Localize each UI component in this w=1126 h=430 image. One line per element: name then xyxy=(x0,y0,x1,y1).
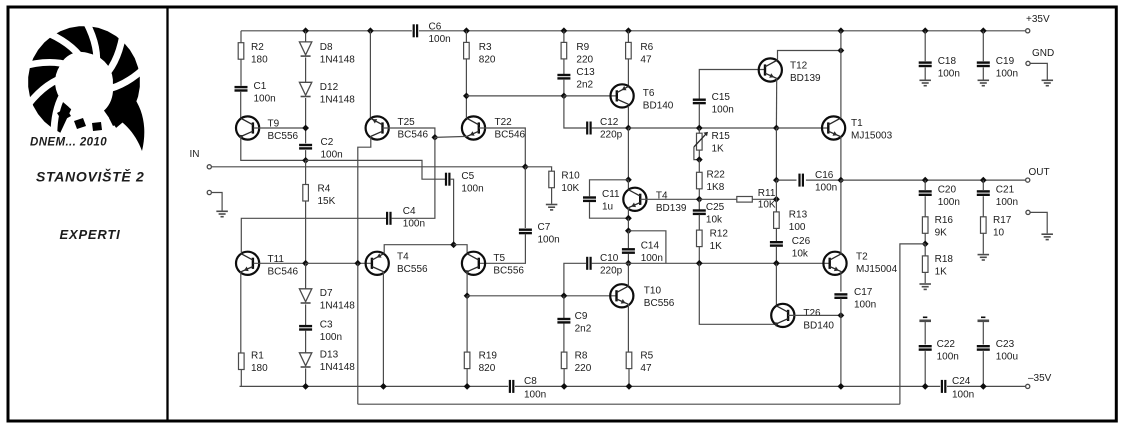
wire T26 base xyxy=(788,314,841,316)
wire R11 right xyxy=(752,198,776,200)
node T11 base junction xyxy=(302,260,309,267)
svg-text:BC556: BC556 xyxy=(397,264,428,275)
svg-text:100n: 100n xyxy=(996,197,1018,208)
panel divider xyxy=(166,6,168,422)
node OUT junction xyxy=(838,177,845,184)
wire T4c into transistor xyxy=(627,180,629,189)
svg-text:BD140: BD140 xyxy=(643,101,674,112)
svg-text:T5: T5 xyxy=(493,253,505,264)
node rail-R19 xyxy=(464,383,471,390)
diode D7 xyxy=(299,289,311,302)
svg-text:C7: C7 xyxy=(538,222,551,233)
wire R15 top leg xyxy=(698,128,700,133)
wire R1 bottom xyxy=(240,370,242,387)
svg-text:STANOVIŠTĚ 2: STANOVIŠTĚ 2 xyxy=(36,168,145,185)
svg-text:R10: R10 xyxy=(561,171,580,182)
node R12-VAS xyxy=(696,260,703,267)
wire T2 emitter xyxy=(840,272,842,292)
node rail-R9 xyxy=(561,27,568,34)
wire C14 bottom xyxy=(627,254,629,263)
wire IN line xyxy=(212,166,526,168)
transistor T5 BC556 xyxy=(462,252,485,275)
svg-text:T22: T22 xyxy=(495,117,513,128)
wire C14 bypass jog xyxy=(628,231,666,263)
node R16-R18 feedback xyxy=(922,241,929,248)
svg-text:C24: C24 xyxy=(952,376,971,387)
wire T2 collector xyxy=(840,180,842,253)
svg-text:BC556: BC556 xyxy=(644,298,675,309)
wire C15 bottom xyxy=(698,104,700,128)
wire D7 anode xyxy=(305,263,307,289)
svg-text:C25: C25 xyxy=(706,202,725,213)
wire C4 right xyxy=(392,137,435,218)
svg-text:R22: R22 xyxy=(707,170,726,181)
node rail-R3 xyxy=(463,27,470,34)
svg-text:10k: 10k xyxy=(792,249,809,260)
svg-text:100n: 100n xyxy=(937,352,959,363)
node VAS-C10-C14 xyxy=(625,260,632,267)
wire C13 bottom xyxy=(563,79,565,96)
svg-text:MJ15004: MJ15004 xyxy=(856,264,898,275)
svg-text:100u: 100u xyxy=(996,352,1018,363)
svg-text:C3: C3 xyxy=(320,320,333,331)
svg-text:100: 100 xyxy=(789,222,806,233)
svg-text:D12: D12 xyxy=(320,82,339,93)
wire C10 left leg xyxy=(564,263,586,296)
wire T25 emitter xyxy=(358,137,371,264)
wire D8-D12 xyxy=(305,58,307,83)
svg-text:R5: R5 xyxy=(640,351,653,362)
node OUT-C21 xyxy=(980,177,987,184)
svg-text:47: 47 xyxy=(640,363,652,374)
transistor T9 BC556 xyxy=(236,116,259,139)
svg-text:R12: R12 xyxy=(710,229,729,240)
wire R2-C1 xyxy=(240,59,242,86)
wire R22 top xyxy=(698,160,700,173)
svg-text:220p: 220p xyxy=(600,130,623,141)
svg-text:220p: 220p xyxy=(600,266,623,277)
svg-text:1N4148: 1N4148 xyxy=(320,301,355,312)
wire C14 top xyxy=(627,231,629,248)
transistor T4 BC556 xyxy=(366,252,389,275)
node T9 base junction xyxy=(302,125,309,132)
node T5 emitter junction xyxy=(464,292,471,299)
diode D13 xyxy=(299,353,311,366)
wire T11 emitter xyxy=(240,272,242,353)
wire T1 emitter xyxy=(840,137,842,181)
resistor R1 xyxy=(239,353,245,370)
node C11 bottom xyxy=(625,215,632,222)
svg-text:47: 47 xyxy=(640,55,652,66)
wire C12 left leg xyxy=(564,96,586,128)
capacitor C11 xyxy=(583,196,596,198)
wire D12-C2 xyxy=(305,98,307,143)
node T4 BD139 collector xyxy=(625,176,632,183)
svg-text:100n: 100n xyxy=(524,390,546,401)
node rail-C19 xyxy=(980,27,987,34)
wire C16 left leg xyxy=(776,179,796,181)
terminal speaker return xyxy=(1026,210,1030,214)
wire VAS line T6-R15 xyxy=(628,127,699,129)
wire T5 collector xyxy=(454,245,468,254)
wire C19 bottom xyxy=(982,67,984,79)
svg-text:R11: R11 xyxy=(758,188,776,199)
capacitor C25 xyxy=(693,209,706,211)
node T10 base junction xyxy=(561,292,568,299)
svg-text:1N4148: 1N4148 xyxy=(320,362,355,373)
wire C17 bottom xyxy=(840,299,842,316)
svg-text:100n: 100n xyxy=(403,219,425,230)
resistor R8 xyxy=(561,352,567,369)
capacitor C17 xyxy=(834,293,847,295)
wire base line T11-T4 xyxy=(306,262,372,264)
node T1 base xyxy=(773,125,780,132)
ground speaker return xyxy=(1041,233,1053,235)
wire feedback right riser xyxy=(900,244,925,404)
svg-text:C2: C2 xyxy=(321,137,334,148)
wire -35V rail right xyxy=(947,385,1028,387)
transistor T6 BD140 xyxy=(611,84,634,107)
svg-text:–35V: –35V xyxy=(1028,373,1052,384)
svg-text:BD139: BD139 xyxy=(656,203,687,214)
node rail-D8 xyxy=(302,27,309,34)
wire T5e to T10 base xyxy=(467,295,617,297)
svg-text:T4: T4 xyxy=(397,252,409,263)
svg-text:R18: R18 xyxy=(935,254,954,265)
svg-text:D8: D8 xyxy=(320,42,333,53)
wire R8 bottom xyxy=(563,369,565,387)
transistor T22 BC546 xyxy=(462,116,485,139)
svg-text:2n2: 2n2 xyxy=(575,324,592,335)
wire T10 collector xyxy=(627,263,629,286)
wire T1 collector xyxy=(840,51,842,119)
wire R16 bottom xyxy=(924,233,926,244)
wire T12 collector xyxy=(778,51,841,60)
wire main column top xyxy=(840,31,842,51)
ground GND terminal xyxy=(1042,79,1054,81)
resistor R2 xyxy=(238,43,244,60)
wire T6 collector xyxy=(627,106,629,128)
diode D8 xyxy=(299,42,311,55)
svg-text:C14: C14 xyxy=(641,241,660,252)
node T25 base junction xyxy=(432,134,439,141)
wire T26 collector xyxy=(775,263,777,305)
capacitor C6 xyxy=(413,24,415,37)
svg-text:C26: C26 xyxy=(792,236,811,247)
wire T26 emitter leg xyxy=(699,263,774,324)
wire C22 bottom xyxy=(924,351,926,386)
wire C5 right xyxy=(450,179,454,245)
node rail-C18 xyxy=(922,27,929,34)
svg-text:220: 220 xyxy=(576,55,593,66)
svg-text:BD140: BD140 xyxy=(803,321,834,332)
trimmer R15 wiper arrow xyxy=(694,132,708,147)
resistor R15 trimmer xyxy=(697,133,703,150)
node R11-R13 xyxy=(773,196,780,203)
wire C9-R8 xyxy=(563,323,565,352)
svg-text:DNEM... 2010: DNEM... 2010 xyxy=(30,137,107,149)
node C2 bottom xyxy=(302,157,309,164)
svg-text:BC546: BC546 xyxy=(398,130,429,141)
capacitor C1 xyxy=(235,86,248,88)
wire C25-R12 xyxy=(698,215,700,231)
resistor R10 xyxy=(549,171,555,188)
svg-text:C20: C20 xyxy=(938,185,957,196)
svg-text:BC546: BC546 xyxy=(268,267,299,278)
capacitor C9 xyxy=(557,318,570,320)
wire R4 top xyxy=(305,160,307,184)
wire T22 collector xyxy=(465,96,467,118)
wire R22 bottom xyxy=(698,189,700,200)
svg-text:10k: 10k xyxy=(706,215,723,226)
svg-text:BD139: BD139 xyxy=(790,73,821,84)
svg-text:9K: 9K xyxy=(935,228,948,239)
wire R6 top xyxy=(627,31,629,43)
svg-text:EXPERTI: EXPERTI xyxy=(60,227,121,242)
wire C21-R17 xyxy=(982,196,984,217)
node rail-main xyxy=(838,27,845,34)
svg-text:R13: R13 xyxy=(789,210,808,221)
svg-text:C17: C17 xyxy=(854,287,873,298)
node rail-R5 xyxy=(626,383,633,390)
capacitor C4 xyxy=(386,212,388,225)
wire T12 base leg xyxy=(699,70,765,100)
svg-text:100n: 100n xyxy=(254,94,276,105)
svg-text:1N4148: 1N4148 xyxy=(320,95,355,106)
wire -35V rail mid xyxy=(515,385,940,387)
capacitor C26 xyxy=(770,241,783,243)
resistor R13 xyxy=(774,212,780,229)
svg-text:1K8: 1K8 xyxy=(707,182,725,193)
node C13 bottom xyxy=(561,93,568,100)
wire T4 emitter xyxy=(382,272,384,387)
wire C7-T5 base xyxy=(479,234,526,263)
svg-text:C15: C15 xyxy=(712,92,731,103)
capacitor C3 xyxy=(299,325,312,327)
svg-text:820: 820 xyxy=(479,55,496,66)
node feedback-T4 base xyxy=(354,260,361,267)
wire T4e node down xyxy=(627,218,629,231)
svg-text:+35V: +35V xyxy=(1026,14,1050,25)
node rail-T25 xyxy=(367,27,374,34)
transistor T26 BD140 xyxy=(771,304,794,327)
transistor T2 MJ15004 xyxy=(823,252,846,275)
svg-text:220: 220 xyxy=(575,363,592,374)
wire C26 bottom xyxy=(775,246,777,263)
wire R9 top xyxy=(563,31,565,43)
wire C11 top bracket xyxy=(590,180,629,197)
resistor R5 xyxy=(626,352,632,369)
wire C16 right leg xyxy=(806,179,841,181)
svg-text:10: 10 xyxy=(993,228,1005,239)
wire C11 bottom bracket xyxy=(590,202,629,218)
wire R4 bottom xyxy=(305,201,307,263)
svg-text:180: 180 xyxy=(251,55,268,66)
wire C18 bottom xyxy=(924,67,926,79)
wire T4 collector xyxy=(384,245,453,254)
svg-text:820: 820 xyxy=(479,363,496,374)
svg-text:R17: R17 xyxy=(993,215,1012,226)
svg-text:C16: C16 xyxy=(815,170,834,181)
wire C25 top xyxy=(698,199,700,210)
svg-text:100n: 100n xyxy=(712,105,734,116)
wire R3 top xyxy=(465,31,467,43)
svg-text:T12: T12 xyxy=(790,61,808,72)
wire C9 top xyxy=(563,296,565,318)
terminal OUT xyxy=(1026,178,1030,182)
wire T12 emitter xyxy=(775,78,777,128)
svg-text:OUT: OUT xyxy=(1029,167,1050,178)
transistor T4 BD139 xyxy=(623,188,646,211)
wire T4 emitter to node xyxy=(627,208,629,219)
wire T22 emitter xyxy=(435,136,467,137)
node rail-C23 xyxy=(980,383,987,390)
svg-text:100n: 100n xyxy=(815,183,837,194)
power flag C22 xyxy=(919,319,931,322)
wire R19 top xyxy=(466,296,468,352)
capacitor C12 xyxy=(586,122,588,135)
ground R10 xyxy=(546,204,558,206)
svg-text:T1: T1 xyxy=(851,118,863,129)
wire C22 top stub xyxy=(924,322,926,345)
ground input xyxy=(216,210,228,212)
svg-text:R9: R9 xyxy=(576,42,589,53)
wire T4 base xyxy=(640,198,699,200)
svg-text:D13: D13 xyxy=(320,350,339,361)
svg-text:1K: 1K xyxy=(712,144,725,155)
capacitor C13 xyxy=(557,74,570,76)
svg-text:C4: C4 xyxy=(403,206,416,217)
svg-text:100n: 100n xyxy=(429,34,451,45)
wire C20 top xyxy=(924,180,926,190)
svg-text:D7: D7 xyxy=(320,288,333,299)
wire R18 top xyxy=(924,244,926,256)
wire OUT line xyxy=(841,179,1028,181)
node IN-R10-T22 xyxy=(522,163,529,170)
node rail-R6 xyxy=(625,27,632,34)
svg-text:T10: T10 xyxy=(644,286,662,297)
wire R3 bottom xyxy=(465,59,467,96)
svg-text:C21: C21 xyxy=(996,185,1015,196)
wire R12 bottom xyxy=(698,247,700,264)
terminal IN xyxy=(207,165,211,169)
wire C12 right xyxy=(592,127,629,129)
capacitor C14 xyxy=(622,248,635,250)
terminal IN ground xyxy=(207,190,211,194)
capacitor C19 xyxy=(977,61,990,63)
svg-text:T25: T25 xyxy=(398,117,416,128)
wire +35V rail left segment xyxy=(241,30,412,32)
resistor R9 xyxy=(561,42,567,59)
svg-text:1K: 1K xyxy=(935,267,948,278)
wire mid line R3-R9 xyxy=(466,95,564,97)
capacitor C18 xyxy=(919,61,932,63)
svg-text:GND: GND xyxy=(1032,48,1054,59)
wire C19 top xyxy=(982,31,984,61)
svg-text:C8: C8 xyxy=(524,376,537,387)
resistor R4 xyxy=(303,185,309,202)
wire R13 top leg xyxy=(775,199,777,212)
wire T11 base xyxy=(254,262,306,264)
capacitor C24 xyxy=(941,380,943,393)
svg-text:C13: C13 xyxy=(576,67,595,78)
svg-text:100n: 100n xyxy=(461,184,483,195)
node T4 base-R11 xyxy=(696,196,703,203)
svg-text:100n: 100n xyxy=(538,235,560,246)
node rail-C22 xyxy=(922,383,929,390)
svg-text:MJ15003: MJ15003 xyxy=(851,131,893,142)
wire R15 bottom xyxy=(698,150,700,160)
svg-text:1N4148: 1N4148 xyxy=(320,55,355,66)
transistor T1 MJ15003 xyxy=(822,116,845,139)
diode D12 xyxy=(299,82,311,95)
svg-text:10K: 10K xyxy=(561,183,579,194)
svg-text:100n: 100n xyxy=(854,300,876,311)
capacitor C16 xyxy=(798,174,800,187)
node OUT-C20 xyxy=(922,177,929,184)
svg-text:C10: C10 xyxy=(600,253,619,264)
node T22 collector xyxy=(463,93,470,100)
logo pinwheel xyxy=(20,16,148,151)
wire D13 bottom xyxy=(305,368,307,386)
svg-text:100n: 100n xyxy=(938,69,960,80)
node T4-T5 collectors xyxy=(450,241,457,248)
transistor T12 BD139 xyxy=(759,58,782,81)
svg-text:R4: R4 xyxy=(318,184,331,195)
svg-text:R8: R8 xyxy=(575,351,588,362)
wire C20-R16 xyxy=(924,196,926,217)
svg-text:T26: T26 xyxy=(803,308,821,319)
svg-text:R19: R19 xyxy=(479,351,498,362)
wire R2 top xyxy=(240,31,242,43)
wire R17 bottom xyxy=(982,233,984,254)
node rail-D13 xyxy=(302,383,309,390)
wire C1-T9 collector xyxy=(240,92,242,118)
node T26 base-C17 xyxy=(838,312,845,319)
svg-text:10K: 10K xyxy=(758,200,776,211)
svg-text:180: 180 xyxy=(251,363,268,374)
ground C18 xyxy=(919,79,931,81)
svg-text:R3: R3 xyxy=(479,42,492,53)
capacitor C2 xyxy=(299,144,312,146)
wire feedback bottom line xyxy=(358,403,900,405)
svg-text:C11: C11 xyxy=(602,189,620,200)
wire R6-T6 emitter xyxy=(627,59,629,86)
transistor T25 BC546 xyxy=(366,116,389,139)
wire C10 right xyxy=(592,262,629,264)
svg-text:T6: T6 xyxy=(643,88,655,99)
svg-text:R1: R1 xyxy=(251,351,264,362)
svg-text:R2: R2 xyxy=(251,42,264,53)
wire C7 top xyxy=(524,167,526,228)
resistor R6 xyxy=(626,42,632,59)
wire T12e to C16 node xyxy=(775,128,777,180)
wire C23 bottom xyxy=(982,351,984,386)
wire R11 left xyxy=(699,198,737,200)
svg-text:R16: R16 xyxy=(935,215,954,226)
capacitor C20 xyxy=(919,190,932,192)
wire D8 anode xyxy=(305,31,307,42)
node T12c-main xyxy=(838,47,845,54)
wire T9 emitter xyxy=(241,137,306,161)
resistor R16 xyxy=(922,217,928,234)
wire C16 node to R11 node xyxy=(775,180,777,199)
transistor T11 BC546 xyxy=(236,252,259,275)
wire GND stub xyxy=(1030,63,1047,79)
capacitor C7 xyxy=(519,228,532,230)
wire R9-C13 xyxy=(563,59,565,75)
svg-text:100n: 100n xyxy=(320,332,342,343)
